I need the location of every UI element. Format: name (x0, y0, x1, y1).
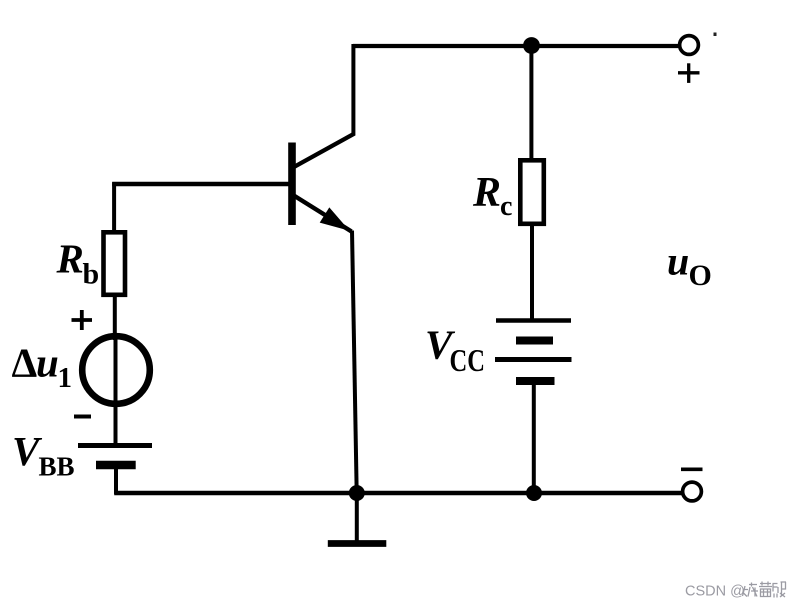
node VCC junction (526, 485, 542, 501)
label Δu1 (12, 340, 73, 395)
svg-text:Δ: Δ (12, 340, 38, 386)
svg-text:R: R (472, 170, 501, 216)
wire Rc to VCC (530, 224, 534, 321)
svg-text:CC: CC (450, 344, 485, 379)
source Δu1 (82, 336, 150, 404)
wire collector vertical (351, 44, 355, 135)
label − (output polarity) (681, 467, 703, 471)
svg-text:u: u (667, 239, 689, 284)
wire Rb to source (113, 297, 117, 340)
svg-text:u: u (36, 340, 59, 386)
battery VCC plate long 2 (495, 357, 572, 362)
label + (source polarity) (72, 310, 93, 330)
wire through source (114, 336, 118, 446)
terminal output − (683, 482, 702, 501)
wire bottom rail (114, 491, 682, 496)
wire emitter vertical (352, 231, 357, 494)
wire VBB to bottom rail (114, 465, 118, 494)
wire Rc upper vertical (529, 46, 533, 159)
svg-text:BB: BB (39, 452, 75, 482)
svg-text:R: R (56, 236, 84, 282)
wire base horizontal (112, 182, 289, 187)
scan artifact dot (714, 33, 717, 37)
label VBB (12, 428, 75, 482)
ground (328, 493, 387, 544)
svg-text:CSDN @: CSDN @ (685, 584, 745, 600)
label Rc (472, 170, 512, 222)
resistor Rc (520, 160, 544, 224)
resistor Rb (104, 232, 126, 294)
svg-text:b: b (83, 258, 100, 291)
battery VCC plate long 1 (496, 318, 571, 323)
svg-text:1: 1 (58, 362, 73, 394)
wire VCC to bottom rail (532, 381, 536, 495)
wire top rail (353, 44, 679, 48)
node emitter junction (349, 485, 365, 501)
wire left vertical to Rb (112, 182, 116, 231)
watermark glyph lou (773, 582, 787, 598)
label + (output polarity) (678, 63, 700, 83)
label VCC (425, 322, 485, 379)
svg-text:c: c (500, 191, 512, 222)
watermark glyph shou (759, 582, 772, 597)
battery VBB plate short (96, 461, 136, 470)
label − (source polarity) (74, 415, 91, 419)
svg-text:O: O (689, 259, 712, 292)
battery VCC plate short 2 (516, 377, 555, 385)
label uO (667, 239, 712, 293)
battery VCC plate short 1 (516, 337, 553, 345)
battery VBB plate long (78, 443, 152, 448)
watermark glyph yao (743, 583, 759, 597)
terminal output + (680, 36, 699, 55)
node collector junction (523, 37, 540, 54)
transistor Q1 (288, 134, 354, 232)
